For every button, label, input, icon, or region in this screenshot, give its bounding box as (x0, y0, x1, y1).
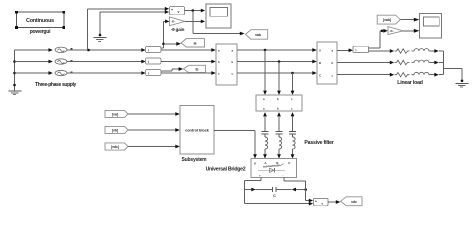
scope2 (420, 14, 442, 38)
wire row1 source to current block (67, 49, 142, 51)
wire tap B down to box M3 (277, 62, 281, 95)
wire row1 bus to source Va (15, 49, 50, 51)
svg-text:b: b (332, 61, 334, 65)
gain2 triangle (388, 27, 403, 35)
svg-text:A: A (265, 161, 267, 165)
wire M2 row1 to current I4 (337, 49, 349, 51)
svg-text:-: - (283, 174, 284, 178)
capacitor C branch wire (244, 188, 271, 192)
svg-text:[vab]: [vab] (383, 18, 391, 22)
wire I4 to load row1 (369, 50, 390, 52)
wire from vab to scope2 (400, 19, 414, 21)
gain1 triangle (170, 17, 186, 26)
svg-text:[vdc]: [vdc] (111, 145, 119, 149)
wire I1 signal to gain1 and goto ia (161, 20, 170, 48)
wire row2 bus to source Vb (15, 61, 50, 63)
powergui block (15, 11, 65, 35)
wire row3 I3 to measurement M1 (161, 72, 212, 74)
svg-text:A: A (319, 49, 321, 53)
svg-text:ia: ia (194, 41, 197, 45)
svg-text:i: i (148, 71, 149, 75)
control block subsystem U1 (180, 106, 214, 155)
svg-text:Universal Bridge2: Universal Bridge2 (206, 167, 246, 173)
svg-text:B: B (319, 61, 321, 65)
svg-text:Passive filter: Passive filter (304, 140, 333, 146)
voltage measurement V2 (313, 198, 328, 205)
node bus-row2 (13, 60, 16, 63)
wire row2 I2 to measurement M1 (161, 61, 212, 63)
svg-text:B: B (276, 161, 278, 165)
wire capacitor to dc minus bus (276, 188, 305, 192)
wire row1 M1 to M2 (237, 49, 313, 51)
node row1 filter tap (264, 49, 267, 52)
wire row3 bus to source Vc (15, 72, 50, 74)
node bus-gnd (13, 84, 16, 87)
capacitor C (272, 187, 276, 198)
node row1 voltage tap (87, 49, 90, 52)
svg-text:[vb]: [vb] (112, 128, 118, 132)
wire ground to voltage measurement - (99, 10, 169, 36)
load neutral bus wire (443, 51, 445, 75)
voltage measurement V1 (170, 7, 185, 15)
current measurement I2 row2 (146, 58, 161, 64)
wire from vb to control block (128, 129, 176, 131)
node I1 branch (162, 43, 165, 46)
svg-text:b: b (277, 97, 279, 101)
load branch row2 (395, 60, 444, 65)
ground load neutral (456, 83, 469, 87)
svg-text:vab: vab (255, 33, 261, 37)
svg-text:vdc: vdc (351, 200, 357, 204)
load branch row1 (395, 49, 444, 54)
wire phase A tap to voltage measurement + (88, 7, 170, 50)
wire from vdc to control block (128, 146, 176, 148)
node row2 filter tap (278, 60, 281, 63)
goto tag vab (246, 30, 268, 40)
wire row3 M1 to M2 (237, 72, 313, 74)
svg-text:C: C (319, 74, 321, 78)
measurement box M3 (256, 95, 302, 111)
current measurement I1 row1 (146, 47, 161, 53)
wire tap A down to box M3 (263, 50, 267, 95)
wire M2 row3 to load (337, 74, 390, 76)
wire row3 source to current block (67, 72, 142, 74)
svg-text:Linear load: Linear load (397, 80, 423, 86)
wire row2 source to current block (67, 61, 142, 63)
svg-text:v: v (178, 10, 180, 14)
goto tag ia (181, 39, 205, 47)
svg-text:g: g (254, 161, 256, 165)
wire row2 M1 to M2 (237, 61, 313, 63)
wire bridge plus to dc bus (244, 178, 261, 204)
wire V1 output to scope1 (185, 10, 202, 12)
goto tag vdc (341, 197, 362, 206)
svg-text:b: b (232, 60, 234, 64)
svg-text:C: C (288, 161, 290, 165)
wire V2 to goto vdc (328, 200, 340, 204)
svg-text:Subsystem: Subsystem (182, 157, 208, 163)
svg-text:i: i (356, 48, 357, 52)
wire gain1 output to scope1 (185, 20, 201, 22)
svg-text:control block: control block (185, 129, 210, 133)
node gain2 input (381, 30, 384, 33)
svg-text:powergui: powergui (30, 29, 51, 35)
scope1 (206, 4, 231, 28)
three-phase block M2 (317, 42, 337, 84)
wire gain2 to scope2 (403, 30, 414, 32)
wire row1 I1 to measurement M1 (161, 49, 212, 51)
three-phase measurement M1 (216, 44, 237, 85)
current measurement I4 (353, 46, 369, 52)
AC source Vb (55, 59, 72, 64)
svg-text:Continuous: Continuous (26, 18, 54, 24)
AC source Va (55, 47, 72, 52)
from tag vab (377, 15, 400, 24)
ground measurement reference (94, 38, 107, 42)
ground supply neutral (9, 91, 22, 95)
wire control output to bridge gate (214, 130, 257, 158)
load branch row3 (395, 72, 444, 77)
wire dc plus bottom to V2 (244, 202, 313, 206)
svg-text:-K-: -K- (390, 29, 394, 33)
svg-text:-K-: -K- (171, 20, 175, 24)
three-phase supply left neutral bus wire (14, 50, 16, 91)
svg-text:+: + (315, 200, 317, 204)
svg-text:Three-phase supply: Three-phase supply (35, 82, 77, 88)
svg-text:C: C (273, 194, 276, 198)
svg-text:b: b (277, 107, 279, 111)
node load ground (461, 80, 464, 83)
AC source Vc (55, 70, 72, 75)
svg-text:b: b (218, 60, 220, 64)
wire V1 branch down to goto vab (193, 11, 245, 36)
node V1 branch (192, 9, 195, 12)
wire I4 signal up to gain2 (369, 29, 388, 48)
svg-text:i: i (148, 48, 149, 52)
from tag va (105, 110, 128, 117)
svg-text:ib: ib (195, 67, 198, 71)
passive filter branch C (289, 112, 296, 158)
universal bridge U2 (251, 159, 297, 178)
wire M2 row2 to load (337, 62, 390, 64)
current measurement I3 row3 (146, 70, 161, 76)
from tag vdc (105, 143, 128, 150)
from tag vb (105, 126, 128, 133)
wire tap C down to box M3 (291, 73, 295, 95)
passive filter branch B (276, 112, 283, 158)
wire load bus to ground (444, 69, 463, 83)
node dc minus (304, 188, 307, 191)
svg-text:i: i (148, 60, 149, 64)
wire bridge minus down (284, 178, 313, 203)
node bus-row3 (13, 72, 16, 75)
node row3 filter tap (291, 72, 294, 75)
svg-text:-9 gain: -9 gain (171, 27, 185, 32)
goto tag ib (183, 65, 205, 72)
wire I1 branch to goto ia (164, 42, 181, 46)
wire I3 signal to goto ib (161, 67, 183, 71)
wire from va to control block (128, 113, 176, 115)
passive filter branch A (262, 112, 269, 158)
svg-text:+: + (171, 8, 173, 12)
svg-text:[va]: [va] (112, 112, 118, 116)
